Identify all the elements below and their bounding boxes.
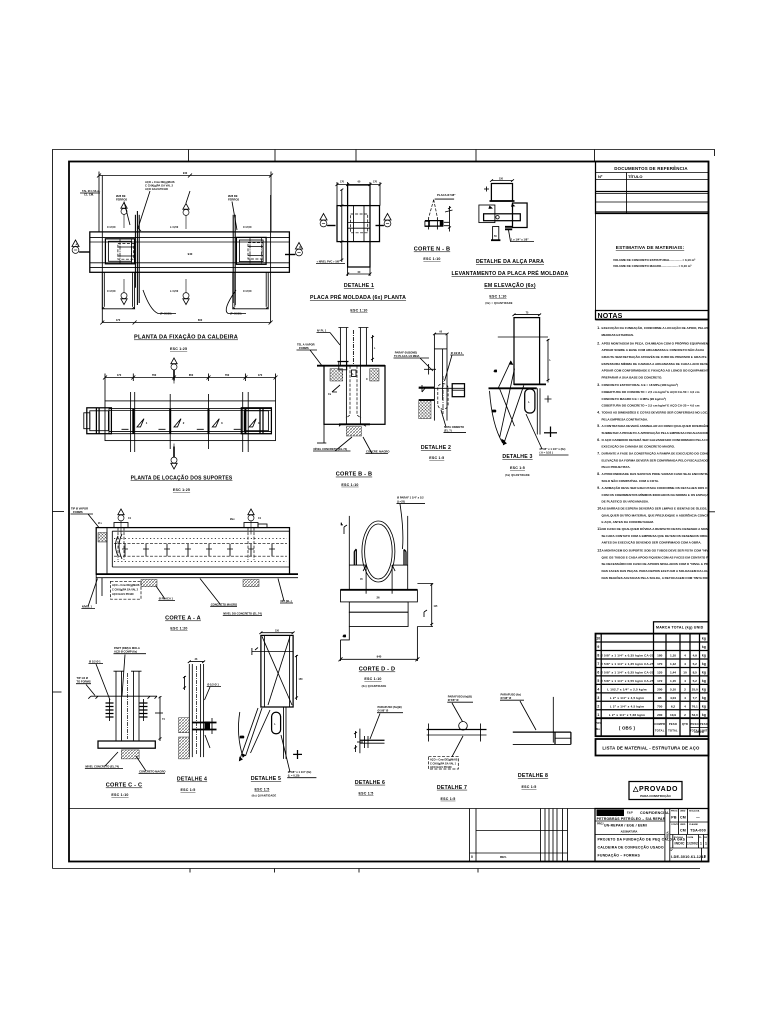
svg-text:DETALHE 6: DETALHE 6 [355, 780, 385, 786]
grid line left [101, 176, 103, 323]
svg-text:L=3,50: L=3,50 [170, 289, 179, 293]
svg-text:150: 150 [492, 410, 497, 413]
svg-text:DETALHE 2: DETALHE 2 [421, 445, 451, 451]
svg-text:4: 4 [597, 687, 599, 691]
svg-text:L=3,50: L=3,50 [170, 225, 179, 229]
left hatch block [98, 533, 107, 543]
svg-text:0: 0 [471, 855, 473, 859]
section flag right A [285, 243, 303, 256]
svg-text:ESC 1:25: ESC 1:25 [173, 488, 190, 492]
svg-text:ESC 1:5: ESC 1:5 [255, 788, 270, 792]
elevation markers bottom [121, 279, 127, 305]
svg-text:kg: kg [702, 704, 706, 708]
svg-text:CM: CM [680, 816, 686, 820]
svg-text:ESC 1:20: ESC 1:20 [170, 627, 187, 631]
svg-text:AÇO GALV.P/CHO: AÇO GALV.P/CHO [145, 187, 168, 191]
support triangles and bars [122, 419, 257, 430]
svg-text:CONCRETO MAGRO: CONCRETO MAGRO [139, 770, 165, 774]
svg-text:PESO: PESO [669, 722, 677, 726]
left 2-line label [394, 350, 434, 371]
leader to label [509, 230, 535, 242]
vertical plate rect [348, 185, 370, 267]
svg-text:8: 8 [597, 654, 599, 658]
svg-text:ESC 1:5: ESC 1:5 [522, 785, 537, 789]
svg-text:170: 170 [116, 318, 121, 322]
svg-text:7: 7 [597, 662, 599, 666]
svg-text:ESC 1:10: ESC 1:10 [364, 677, 381, 681]
svg-text:4: 4 [684, 654, 686, 658]
svg-text:170: 170 [373, 181, 378, 184]
svg-text:DETALHE DA ALÇA PARA: DETALHE DA ALÇA PARA [476, 259, 544, 265]
svg-text:TOTAL: TOTAL [668, 729, 678, 733]
svg-text:kg: kg [702, 654, 706, 658]
svg-text:FORMS: FORMS [73, 510, 83, 514]
svg-text:INDIC: INDIC [674, 842, 685, 846]
svg-text:—: — [696, 816, 700, 820]
svg-text:kg: kg [702, 679, 706, 683]
svg-text:△PROVADO: △PROVADO [632, 786, 678, 793]
svg-text:DATA: DATA [688, 836, 694, 839]
svg-text:∅ 5/8" x 1 1/4" x 0,55 kg/m C: ∅ 5/8" x 1 1/4" x 0,55 kg/m CA-25 [600, 679, 654, 683]
svg-text:Ø28 DE: Ø28 DE [228, 194, 238, 198]
svg-text:kg: kg [702, 645, 706, 649]
svg-text:( OBS ): ( OBS ) [619, 726, 636, 731]
svg-text:5: 5 [597, 679, 599, 683]
svg-text:7.: 7. [597, 452, 600, 456]
notas header [596, 311, 709, 321]
svg-text:ANTES DA EXECUÇÃO DEVENDO SER: ANTES DA EXECUÇÃO DEVENDO SER CONFIRMADO… [602, 540, 702, 545]
svg-text:DE: DE [704, 837, 708, 839]
svg-text:APOIAR SOBRE A BASE COM ARGAMA: APOIAR SOBRE A BASE COM ARGAMASSA E CONC… [602, 347, 706, 352]
svg-text:∅ 5/8" x 1 1/4" x 1,25 kg/m C: ∅ 5/8" x 1 1/4" x 1,25 kg/m CA-25 [600, 662, 654, 666]
grid double verticals left [131, 392, 135, 452]
documentos de referencia table [596, 162, 709, 214]
svg-text:LISTA DE MATERIAL - ESTRUTUR: LISTA DE MATERIAL - ESTRUTURA DE AÇO [602, 746, 700, 751]
svg-text:CORTE B - B: CORTE B - B [336, 472, 372, 478]
svg-text:UN-REPAR / EGE / EEMI: UN-REPAR / EGE / EEMI [604, 824, 647, 828]
svg-text:10: 10 [596, 637, 600, 641]
svg-text:4,04: 4,04 [670, 696, 676, 700]
svg-text:TEL A VAPOR: TEL A VAPOR [297, 343, 315, 347]
svg-text:95: 95 [658, 696, 662, 700]
svg-text:850: 850 [189, 373, 194, 377]
svg-text:kg: kg [702, 662, 706, 666]
stirrup ticks [122, 544, 275, 557]
right block [513, 203, 528, 228]
slot capsule [525, 389, 535, 413]
svg-text:PARAFUSO (6x): PARAFUSO (6x) [501, 693, 522, 697]
bottom legs [493, 227, 499, 241]
right dim [547, 339, 550, 383]
svg-text:ESC 1:5: ESC 1:5 [359, 792, 374, 796]
notas text column [597, 325, 768, 580]
nivel label [316, 259, 345, 264]
svg-text:VOLUME DE CONCRETO MAGRO......: VOLUME DE CONCRETO MAGRO................… [613, 264, 691, 268]
slab box 1 [341, 590, 418, 602]
svg-text:Ø PARAF 1 1/4" x 1/2: Ø PARAF 1 1/4" x 1/2 [397, 496, 424, 500]
svg-text:172: 172 [657, 679, 662, 683]
svg-text:CORTE D - D: CORTE D - D [359, 667, 395, 673]
svg-text:AÇO GALV P/CHO: AÇO GALV P/CHO [112, 593, 134, 596]
svg-text:ESCALA: ESCALA [674, 836, 683, 839]
svg-text:4,9: 4,9 [693, 654, 698, 658]
svg-text:DETALHE 3: DETALHE 3 [502, 454, 532, 460]
weld tick [422, 364, 436, 392]
sheet inner thick border [69, 162, 709, 862]
leader texts top of plan [80, 180, 239, 231]
svg-text:CONCRETO ESTRUTURAL fck = 18 M: CONCRETO ESTRUTURAL fck = 18 MPa (180 kg… [602, 383, 679, 387]
svg-text:1: 1 [597, 713, 599, 717]
svg-text:150: 150 [275, 629, 280, 632]
section flag left [320, 214, 336, 227]
svg-text:CORTE C - C: CORTE C - C [106, 783, 142, 789]
bottom dimension line [100, 321, 272, 325]
svg-text:MARCA TOTAL (kg) UNID: MARCA TOTAL (kg) UNID [656, 626, 704, 630]
svg-text:5.: 5. [597, 424, 600, 428]
svg-text:DOCUMENTOS DE REFERÊNCIA: DOCUMENTOS DE REFERÊNCIA [614, 166, 688, 171]
section flag left A [72, 240, 90, 253]
svg-text:4: 4 [684, 704, 686, 708]
title block [595, 809, 709, 862]
hatch block [419, 401, 431, 419]
svg-text:CONTR: CONTR [671, 824, 679, 826]
svg-text:PARAFUSO (6x)(B): PARAFUSO (6x)(B) [448, 695, 472, 699]
right pedestal below [233, 272, 268, 309]
svg-text:26: 26 [376, 596, 380, 600]
svg-text:Ø x: Ø x [98, 522, 103, 525]
svg-text:6.: 6. [597, 438, 600, 442]
left small dim [341, 523, 347, 534]
svg-text:0: 0 [704, 855, 706, 859]
small left dim [484, 187, 489, 192]
label right [281, 735, 316, 778]
inner band [109, 409, 272, 434]
svg-text:115: 115 [434, 605, 439, 608]
elevation markers top [121, 203, 127, 229]
svg-text:170: 170 [340, 181, 345, 184]
svg-text:200: 200 [657, 687, 662, 691]
svg-text:ESC 1:5: ESC 1:5 [510, 466, 525, 470]
leader label [429, 193, 457, 218]
svg-text:PELO PROJETISTA.: PELO PROJETISTA. [602, 465, 631, 469]
svg-text:170: 170 [117, 373, 122, 377]
foundation block [317, 366, 385, 425]
diagonal through plate [262, 636, 292, 705]
svg-text:Ø28 DE: Ø28 DE [116, 194, 126, 198]
dimension line [103, 374, 278, 401]
svg-text:FERROS: FERROS [116, 198, 127, 202]
svg-text:kg: kg [702, 637, 706, 641]
right dim [295, 655, 298, 700]
column verticals [189, 664, 203, 757]
svg-text:PLANTA DA FIXAÇÃO DA CALDEIRA: PLANTA DA FIXAÇÃO DA CALDEIRA [134, 334, 238, 341]
svg-text:9: 9 [597, 645, 599, 649]
svg-text:750: 750 [657, 704, 662, 708]
svg-text:9.: 9. [597, 486, 600, 490]
top plate [491, 184, 512, 202]
svg-text:C CHX(g)PA GA VAL 2: C CHX(g)PA GA VAL 2 [145, 184, 174, 188]
leader label top-left [71, 507, 100, 528]
svg-text:Ø 1/2 Ø 1: Ø 1/2 Ø 1 [451, 351, 463, 355]
left end verticals below [96, 574, 102, 604]
svg-text:CALDEIRA DE CONFECÇÃO USADO: CALDEIRA DE CONFECÇÃO USADO [598, 845, 664, 850]
svg-text:PESO: PESO [691, 722, 699, 726]
top dim [188, 661, 205, 664]
svg-text:1.: 1. [597, 326, 600, 330]
bottom dim [346, 267, 371, 276]
section flag right [376, 214, 392, 227]
svg-text:3.: 3. [597, 383, 600, 387]
svg-text:DETALHE 7: DETALHE 7 [437, 785, 467, 791]
svg-text:52,0: 52,0 [692, 713, 698, 717]
svg-text:L 102,7 x 1/4" x 2,5 kg/m: L 102,7 x 1/4" x 2,5 kg/m [607, 687, 647, 691]
svg-text:Øxx: Øxx [230, 518, 235, 521]
svg-text:AÇO Ø COMP (6x): AÇO Ø COMP (6x) [114, 650, 137, 654]
top anchor plates [114, 523, 267, 528]
bottom revision strip [69, 809, 595, 862]
material list table [595, 622, 708, 736]
center bar [484, 214, 521, 221]
svg-text:1 e 1/4" x 1/8": 1 e 1/4" x 1/8" [511, 238, 529, 242]
svg-text:(6x) = QUANTIDADE: (6x) = QUANTIDADE [485, 302, 512, 305]
leader labels bottom [81, 579, 293, 616]
svg-text:CONFR: CONFR [694, 730, 704, 734]
right base plate [236, 237, 266, 264]
cross plate detail [192, 718, 217, 734]
left block [479, 205, 495, 223]
label right [526, 414, 569, 455]
svg-text:76,1: 76,1 [692, 704, 698, 708]
elevation markers over plates [118, 509, 124, 535]
svg-text:SE FARA CONTATO COM A EMPRESA: SE FARA CONTATO COM A EMPRESA QUE DETEM … [602, 534, 716, 538]
bottom hatch pad [339, 424, 370, 436]
svg-text:(6x) QUANTIDADE: (6x) QUANTIDADE [505, 474, 530, 477]
left pedestal below [102, 272, 134, 309]
svg-text:Ø 5/8" Ø: Ø 5/8" Ø [448, 698, 459, 702]
svg-text:TIP 1/4 Ø: TIP 1/4 Ø [77, 676, 88, 680]
leader bottom [205, 735, 210, 748]
svg-text:Ø 5/8" Ø: Ø 5/8" Ø [501, 696, 512, 700]
svg-text:C=2,50: C=2,50 [107, 289, 116, 293]
svg-text:POS: POS [595, 721, 601, 725]
hatch pads under [141, 580, 157, 587]
left ground line [317, 424, 326, 443]
svg-text:AS BARRAS DE ESPERA DEVERÃO SE: AS BARRAS DE ESPERA DEVERÃO SER LIMPAS E… [602, 506, 728, 511]
plus mark [544, 427, 557, 438]
leader label top [397, 496, 426, 549]
right dim [155, 696, 163, 741]
svg-text:DURANTE A FASE DA CONSTRUÇÃO A: DURANTE A FASE DA CONSTRUÇÃO A RAMPA DE … [602, 451, 721, 456]
svg-text:DETALHE 8: DETALHE 8 [518, 773, 548, 779]
left step [341, 627, 350, 640]
svg-text:L 2" x 1/4" x 4,5 kg/m: L 2" x 1/4" x 4,5 kg/m [610, 696, 645, 700]
svg-text:DETALHE 5: DETALHE 5 [251, 776, 281, 782]
svg-text:C: C [366, 377, 368, 381]
svg-text:7,7: 7,7 [693, 696, 698, 700]
dimension line top [97, 172, 273, 232]
svg-text:200: 200 [657, 713, 662, 717]
svg-text:6: 6 [597, 671, 599, 675]
svg-text:TSA-000: TSA-000 [690, 829, 706, 833]
svg-text:8.: 8. [597, 472, 600, 476]
svg-text:760: 760 [225, 373, 230, 377]
svg-text:TAL Ø C,5/LxL: TAL Ø C,5/LxL [82, 189, 101, 193]
svg-text:2: 2 [684, 687, 686, 691]
svg-text:170: 170 [258, 373, 263, 377]
svg-text:L 2" x 1/4" x 7,28 kg/m: L 2" x 1/4" x 7,28 kg/m [609, 713, 645, 717]
svg-text:kg: kg [702, 713, 706, 717]
svg-text:(L = 0,10): (L = 0,10) [288, 774, 300, 778]
svg-text:CORTE N - B: CORTE N - B [414, 247, 450, 253]
plate rect [261, 635, 293, 707]
svg-text:AÇO GALV P/CHO: AÇO GALV P/CHO [430, 766, 452, 769]
lista de material title bar [596, 739, 709, 756]
hook arcs left [116, 534, 123, 559]
svg-text:PELA EMPRESA CONTRATADA.: PELA EMPRESA CONTRATADA. [602, 417, 649, 421]
svg-text:10,9: 10,9 [670, 713, 676, 717]
slab top thick [341, 589, 418, 591]
leader labels bottom [313, 437, 389, 454]
svg-text:PART (DIM) E MOLA: PART (DIM) E MOLA [114, 646, 140, 650]
right label [205, 683, 222, 701]
svg-text:1,44: 1,44 [670, 671, 676, 675]
grid verticals center supports [170, 394, 208, 449]
svg-text:AÇO + Cmx DE(g)MAIS: AÇO + Cmx DE(g)MAIS [430, 759, 458, 762]
svg-text:UNID: UNID [680, 824, 686, 826]
svg-text:I-DE-3010.61-1241: I-DE-3010.61-1241 [671, 855, 706, 859]
svg-text:kg: kg [702, 687, 706, 691]
svg-text:3: 3 [597, 696, 599, 700]
svg-text:ASSINATURA: ASSINATURA [621, 829, 638, 833]
svg-text:Nº PL 1: Nº PL 1 [317, 329, 327, 333]
svg-text:DETALHE 1: DETALHE 1 [344, 283, 374, 289]
base plate [98, 741, 155, 748]
column verticals [434, 334, 447, 420]
svg-text:170: 170 [657, 662, 662, 666]
svg-text:120: 120 [657, 671, 662, 675]
svg-text:Ø PLACA 1: Ø PLACA 1 [159, 597, 174, 601]
top dim [433, 333, 449, 336]
right dim of column [371, 335, 374, 362]
svg-text:2.: 2. [597, 341, 600, 345]
svg-text:PB: PB [671, 816, 677, 820]
svg-text:ESC 1:10: ESC 1:10 [341, 483, 358, 487]
svg-text:MEDIDAS EXTERNAS.: MEDIDAS EXTERNAS. [602, 333, 634, 337]
left dim [340, 189, 343, 262]
steel column [338, 328, 368, 366]
svg-text:UNID: UNID [680, 811, 686, 813]
hooks [354, 549, 406, 565]
svg-text:(6x) QUANTIDADE: (6x) QUANTIDADE [362, 685, 387, 688]
svg-text:TC PLACA 1/4 MEIA: TC PLACA 1/4 MEIA [394, 354, 419, 358]
svg-text:COMPR: COMPR [654, 722, 665, 726]
svg-text:4: 4 [684, 662, 686, 666]
svg-text:CLASSE: CLASSE [689, 823, 698, 826]
right block [452, 384, 464, 397]
svg-text:ESC 1:5: ESC 1:5 [429, 456, 444, 460]
bottom labels [85, 752, 166, 774]
plate bar [425, 218, 450, 230]
svg-text:1: 1 [700, 842, 702, 846]
svg-text:COBERTURA DO CONCRETO = 2,5 cm: COBERTURA DO CONCRETO = 2,5 cm kg/m² E A… [602, 390, 700, 394]
svg-text:PARAFUSO (6x)(B): PARAFUSO (6x)(B) [378, 705, 402, 709]
slab box 2 [349, 602, 408, 612]
svg-text:kg: kg [702, 696, 706, 700]
svg-text:C CHX(g)PA GA VAL 1: C CHX(g)PA GA VAL 1 [430, 762, 457, 765]
svg-text:C=2,50: C=2,50 [243, 289, 252, 293]
svg-text:Ø 5/8" x 1 1/4" (6x): Ø 5/8" x 1 1/4" (6x) [288, 770, 312, 774]
svg-text:QUALQUER OUTRO MATERIAL QUE PR: QUALQUER OUTRO MATERIAL QUE PREJUDIQUE A… [602, 512, 716, 517]
ground line [91, 695, 157, 697]
anchor bolt verticals right [233, 215, 235, 305]
svg-text:PLACA PRÉ MOLDADA (6x) PLANTA: PLACA PRÉ MOLDADA (6x) PLANTA [310, 293, 406, 301]
sheet outer border [53, 150, 715, 869]
svg-text:APOIAR COM CONFORMIDADE E FIXA: APOIAR COM CONFORMIDADE E FIXAÇÃO AO LON… [602, 368, 714, 373]
top dim [490, 179, 514, 182]
svg-text:No: No [596, 727, 600, 731]
svg-text:25,0: 25,0 [692, 687, 698, 691]
svg-text:FERROS: FERROS [228, 198, 239, 202]
top dim [513, 314, 542, 317]
svg-text:SUBMETER A PROJETO A APROVAÇÃO: SUBMETER A PROJETO A APROVAÇÃO PELA EMPR… [602, 430, 712, 435]
outer support band [105, 401, 276, 441]
svg-text:NATA CIMENTO: NATA CIMENTO [444, 425, 464, 429]
svg-text:PREPARAR A SUA BASE DO CONCRET: PREPARAR A SUA BASE DO CONCRETO. [602, 376, 663, 380]
slab box 3 [349, 612, 408, 626]
lifting loop ellipse [362, 521, 395, 582]
svg-text:EXECUÇÃO DA FUNDAÇÃO, CONFORME: EXECUÇÃO DA FUNDAÇÃO, CONFORME A LOCAÇÃO… [602, 325, 709, 330]
bolt stacks [106, 703, 148, 717]
bearing line [349, 565, 407, 594]
plus mark [293, 750, 302, 759]
fold marks top [189, 150, 595, 162]
svg-text:5,2: 5,2 [693, 662, 698, 666]
inner lines [348, 206, 370, 242]
svg-text:ESC 1:10: ESC 1:10 [350, 309, 367, 313]
svg-text:CONCRE. MAGRO: CONCRE. MAGRO [366, 450, 389, 454]
svg-text:6,2: 6,2 [671, 704, 676, 708]
centerline marker top [171, 358, 177, 384]
svg-text:AÇO + Cmx DE(g)MAIS: AÇO + Cmx DE(g)MAIS [145, 180, 175, 184]
svg-text:TODAS AS DIMENSÕES E COTAS DEV: TODAS AS DIMENSÕES E COTAS DEVERÃO SER C… [602, 410, 713, 415]
svg-text:PARA CONSTRUÇÃO: PARA CONSTRUÇÃO [640, 793, 671, 798]
svg-text:760: 760 [152, 373, 157, 377]
leader labels top [297, 329, 341, 366]
right verticals [284, 707, 287, 759]
svg-text:E&P: E&P [627, 811, 633, 815]
bottom double line [96, 574, 298, 578]
svg-text:1,12: 1,12 [670, 662, 676, 666]
svg-text:REV.: REV. [500, 855, 507, 859]
fan diagonals [238, 708, 270, 761]
svg-text:CORTE A - A: CORTE A - A [165, 616, 201, 622]
svg-text:∅ 5/8" x 1 1/4" x 0,35 kg/m C: ∅ 5/8" x 1 1/4" x 0,35 kg/m CA-25 [600, 654, 654, 658]
svg-text:2: 2 [684, 713, 686, 717]
leader curves below [143, 290, 246, 316]
small base plate detail [338, 362, 349, 370]
svg-text:E AÇO, ANTES DA CONCRETAGEM.: E AÇO, ANTES DA CONCRETAGEM. [602, 520, 654, 524]
svg-text:Ø 1/2 Ø 1: Ø 1/2 Ø 1 [207, 683, 219, 687]
right label [445, 351, 465, 381]
svg-text:8,5: 8,5 [693, 671, 698, 675]
steel column [114, 671, 142, 741]
left anchor box [84, 408, 112, 434]
svg-text:Nº: Nº [671, 849, 674, 852]
svg-text:ESC 1:10: ESC 1:10 [111, 793, 128, 797]
svg-text:Nº: Nº [598, 174, 603, 179]
svg-text:GRAUTE SEM RETRAÇÃO ATRAVÉS DE: GRAUTE SEM RETRAÇÃO ATRAVÉS DE FURO DE P… [602, 354, 707, 359]
slot capsule [272, 712, 281, 734]
